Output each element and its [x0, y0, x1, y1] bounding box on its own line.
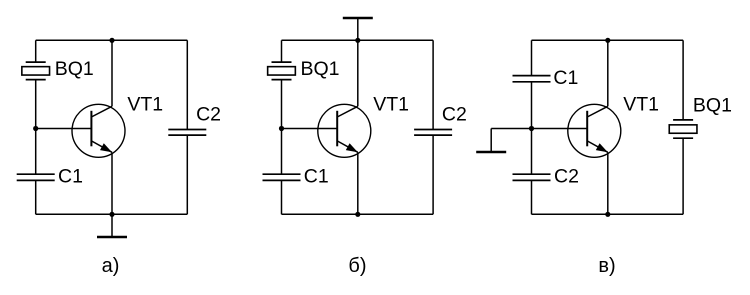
- ground bar (v): [476, 151, 506, 153]
- svg-text:в): в): [598, 255, 615, 277]
- svg-text:VT1: VT1: [623, 94, 659, 116]
- node emitter-bottom junction (a): [109, 212, 114, 217]
- svg-text:C1: C1: [58, 166, 83, 188]
- wire right branch upper (a): [186, 40, 188, 129]
- wire right branch lower (a): [186, 135, 188, 214]
- svg-text:BQ1: BQ1: [55, 58, 94, 80]
- capacitor C2 (b): [414, 130, 452, 136]
- wire collector lead (b): [357, 40, 359, 106]
- svg-text:C1: C1: [304, 166, 329, 188]
- wire left branch upper (v): [531, 40, 533, 75]
- node base junction (v): [529, 126, 534, 131]
- wire top rail (b): [282, 39, 434, 41]
- capacitor C1 (b): [263, 174, 301, 180]
- ground stub (a): [111, 214, 113, 237]
- node base junction (a): [33, 126, 38, 131]
- node collector-top junction (a): [109, 38, 114, 43]
- transistor VT1 (b): [318, 104, 371, 157]
- transistor VT1 (a): [72, 104, 125, 157]
- wire base lead (a): [36, 128, 92, 130]
- node collector-top junction (v): [605, 38, 610, 43]
- svg-text:BQ1: BQ1: [693, 95, 732, 117]
- svg-text:C2: C2: [554, 165, 579, 187]
- node base junction (b): [279, 126, 284, 131]
- wire left branch middle (a): [35, 80, 37, 175]
- wire bottom rail (a): [36, 213, 188, 215]
- wire left branch upper (b): [281, 40, 283, 62]
- transistor VT1 (v): [568, 104, 621, 157]
- capacitor C1 (v): [513, 76, 551, 82]
- wire emitter lead (a): [111, 152, 113, 214]
- wire bottom rail (b): [282, 213, 434, 215]
- wire ground tap vertical (v): [490, 129, 492, 153]
- wire right branch lower (b): [432, 135, 434, 214]
- wire base lead (b): [282, 128, 338, 130]
- power stub (b): [357, 18, 359, 40]
- wire emitter lead (b): [357, 152, 359, 214]
- power bar (b): [343, 17, 373, 19]
- wire left branch lower (v): [531, 180, 533, 214]
- wire left branch middle (v): [531, 82, 533, 174]
- wire right branch upper (b): [432, 40, 434, 129]
- svg-text:VT1: VT1: [373, 94, 409, 116]
- svg-text:BQ1: BQ1: [301, 58, 340, 80]
- wire left branch middle (b): [281, 80, 283, 175]
- wire left branch lower (b): [281, 180, 283, 214]
- crystal BQ1 (b): [268, 62, 296, 80]
- wire emitter lead (v): [607, 152, 609, 214]
- wire top rail (a): [36, 39, 188, 41]
- wire right branch lower (v): [682, 138, 684, 214]
- svg-text:C2: C2: [442, 103, 467, 125]
- wire base lead (v): [532, 128, 588, 130]
- capacitor C1 (a): [17, 174, 55, 180]
- node emitter-bottom junction (b): [355, 212, 360, 217]
- crystal BQ1 (a): [22, 62, 50, 80]
- svg-text:а): а): [102, 255, 120, 277]
- wire right branch upper (v): [682, 40, 684, 120]
- svg-text:б): б): [348, 255, 366, 277]
- wire left branch upper (a): [35, 40, 37, 62]
- svg-text:VT1: VT1: [127, 94, 163, 116]
- ground bar (a): [97, 236, 127, 238]
- wire left branch lower (a): [35, 180, 37, 214]
- capacitor C2 (v): [513, 174, 551, 180]
- crystal BQ1 (v): [669, 120, 697, 138]
- wire collector lead (a): [111, 40, 113, 106]
- svg-text:C2: C2: [196, 103, 221, 125]
- wire top rail (v): [532, 39, 684, 41]
- wire ground tap horizontal (v): [491, 128, 531, 130]
- wire bottom rail (v): [532, 213, 684, 215]
- capacitor C2 (a): [168, 130, 206, 136]
- node emitter-bottom junction (v): [605, 212, 610, 217]
- svg-text:C1: C1: [553, 67, 578, 89]
- wire collector lead (v): [607, 40, 609, 106]
- node collector-top junction (b): [355, 38, 360, 43]
